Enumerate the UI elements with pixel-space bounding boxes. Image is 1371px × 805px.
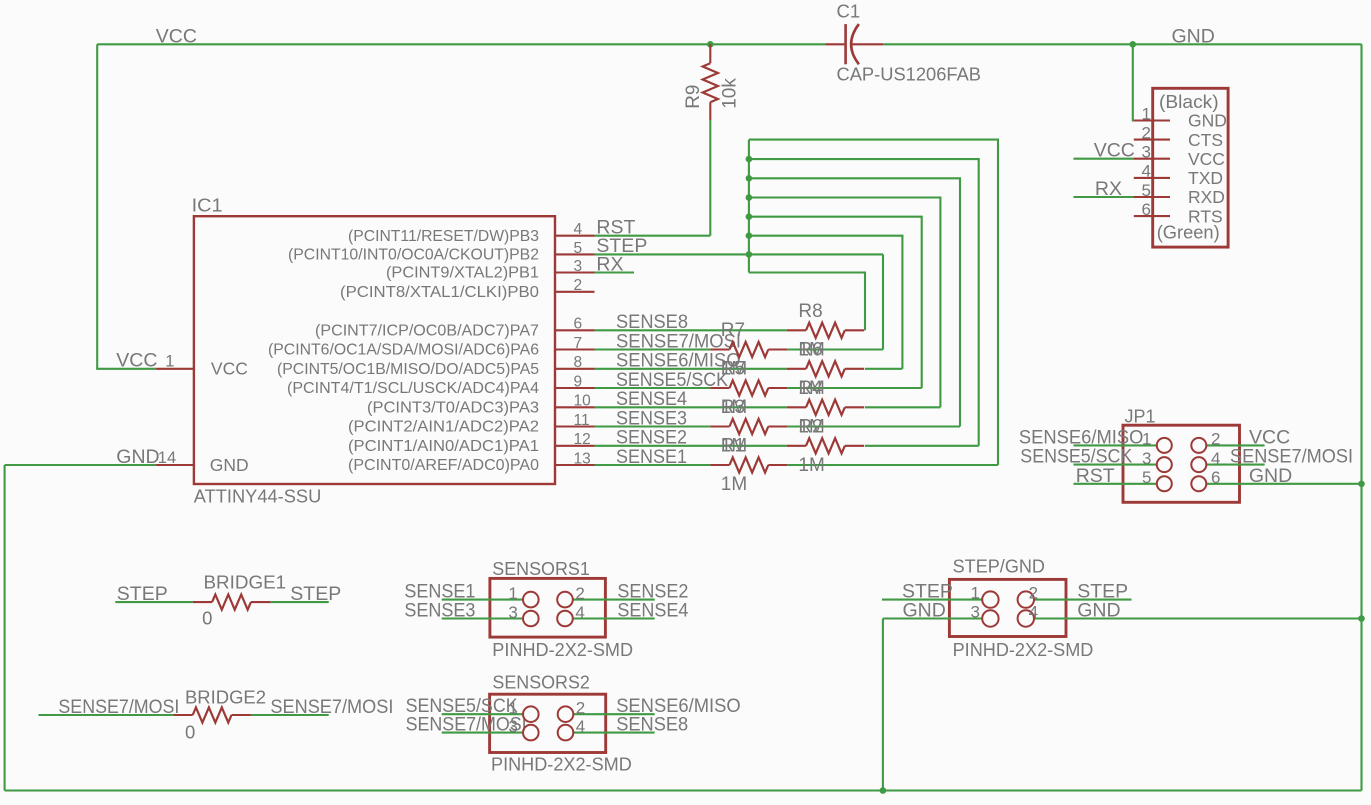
wire SENSE row SENSE5/SCK (resistor to STEP) [788, 387, 922, 389]
svg-text:5: 5 [1142, 468, 1151, 487]
FTDI pin 2 stub [1134, 139, 1170, 141]
wire STEP/GND row 2 right to rail [1034, 617, 1362, 619]
IC1 pin 13 PA0 stub [555, 464, 595, 466]
FTDI pin 4 stub [1134, 177, 1170, 179]
svg-text:12: 12 [574, 431, 591, 448]
wire STEP down to R7 [882, 254, 884, 349]
svg-text:2: 2 [1211, 430, 1220, 449]
wire GND right rail [1360, 44, 1362, 790]
svg-text:CTS: CTS [1188, 130, 1223, 150]
resistor R7 [710, 342, 788, 357]
svg-text:2: 2 [1142, 123, 1151, 142]
STEP/GND pin 2 circle [1018, 591, 1034, 607]
resistor BRIDGE1 [193, 595, 271, 610]
STEP/GND pin 1 circle [982, 591, 998, 607]
wire STEP from IC pin 5 [595, 253, 884, 255]
IC IC1 ATTINY44-SSU body [194, 216, 555, 484]
svg-text:RXD: RXD [1188, 187, 1225, 207]
wire GND drop to FTDI pin 1 [1133, 44, 1134, 120]
svg-text:R8: R8 [798, 301, 822, 322]
junction GND at JP1 row 3 [1358, 481, 1365, 488]
svg-text:2: 2 [575, 584, 584, 603]
svg-text:2: 2 [576, 699, 585, 718]
svg-text:(PCINT9/XTAL2)PB1: (PCINT9/XTAL2)PB1 [386, 265, 539, 282]
wire STEP bus bottom to R8 [749, 273, 865, 331]
wire VCC to FTDI pin 3 [1074, 158, 1135, 160]
svg-text:11: 11 [574, 412, 590, 429]
JP1 pin 5 circle [1157, 476, 1172, 491]
svg-text:14: 14 [158, 449, 176, 467]
junction GND bottom rail [880, 787, 887, 794]
svg-text:4: 4 [576, 717, 585, 736]
svg-text:9: 9 [574, 373, 583, 390]
SENSORS2 pin 2 circle [558, 706, 574, 722]
wire SENSE row SENSE4 (pin side) [595, 406, 787, 408]
svg-text:(PCINT7/ICP/OC0B/ADC7)PA7: (PCINT7/ICP/OC0B/ADC7)PA7 [315, 323, 539, 340]
svg-text:1M: 1M [721, 474, 747, 495]
svg-text:1: 1 [1142, 430, 1151, 449]
IC1 pin 5 PB2 stub [555, 253, 595, 255]
svg-text:(PCINT8/XTAL1/CLKI)PB0: (PCINT8/XTAL1/CLKI)PB0 [340, 284, 539, 301]
wire STEP/GND row 1 right [1034, 599, 1132, 601]
IC1 pin 10 PA3 stub [555, 406, 595, 408]
resistor R3 [710, 419, 788, 434]
svg-text:R7: R7 [721, 320, 745, 341]
svg-text:4: 4 [1029, 602, 1038, 621]
STEP/GND pin 3 circle [982, 610, 998, 626]
SENSORS1 pin 1 circle [523, 592, 539, 608]
svg-text:3: 3 [1142, 449, 1151, 468]
wire SENSE row SENSE5/SCK (pin side) [595, 387, 711, 389]
wire RX from IC pin 3 [595, 271, 635, 273]
IC1 pin 6 PA7 stub [555, 329, 595, 331]
svg-text:R1: R1 [721, 436, 745, 457]
svg-text:VCC: VCC [1188, 149, 1225, 169]
svg-text:CAP-US1206FAB: CAP-US1206FAB [837, 63, 982, 84]
svg-text:4: 4 [1211, 449, 1220, 468]
IC1 pin 7 PA6 stub [555, 348, 595, 350]
FTDI pin 5 stub [1134, 196, 1170, 198]
svg-text:R2: R2 [798, 417, 822, 438]
wire JP1 row 1 left [1074, 444, 1158, 446]
wire SENSE row SENSE4 (resistor to STEP) [865, 406, 940, 408]
junction GND right rail at STEP/GND [1358, 615, 1365, 622]
svg-text:(PCINT1/AIN0/ADC1)PA1: (PCINT1/AIN0/ADC1)PA1 [348, 438, 539, 455]
wire STEP/GND row 2 left [883, 617, 982, 619]
FTDI pin 1 stub [1134, 119, 1170, 121]
JP1 pin 6 circle [1191, 476, 1206, 491]
SENSORS1 pin 4 circle [557, 611, 573, 627]
svg-text:8: 8 [574, 354, 583, 371]
svg-text:0: 0 [202, 608, 212, 629]
svg-text:6: 6 [1142, 200, 1151, 219]
svg-text:3: 3 [508, 603, 517, 622]
wire JP1 GND to right rail [1206, 483, 1362, 485]
svg-text:IC1: IC1 [192, 194, 223, 215]
svg-text:PINHD-2X2-SMD: PINHD-2X2-SMD [491, 753, 632, 774]
SENSORS2 pin 1 circle [523, 706, 539, 722]
svg-text:3: 3 [971, 602, 980, 621]
wire SENSE row SENSE2 (resistor to STEP) [865, 445, 979, 447]
svg-text:10: 10 [574, 393, 592, 410]
svg-text:(PCINT2/AIN1/ADC2)PA2: (PCINT2/AIN1/ADC2)PA2 [348, 419, 539, 436]
wire SENSE row SENSE2 (pin side) [595, 445, 787, 447]
wire STEP bus vertical [748, 140, 750, 273]
junction STEP bus [746, 232, 753, 239]
capacitor C1 [826, 24, 884, 64]
svg-text:0: 0 [185, 722, 195, 743]
svg-text:R5: R5 [721, 359, 745, 380]
svg-text:PINHD-2X2-SMD: PINHD-2X2-SMD [492, 639, 633, 660]
JP1 pin 3 circle [1157, 457, 1172, 472]
wire STEP branch to R3 [749, 178, 960, 426]
svg-text:VCC: VCC [211, 359, 248, 379]
svg-text:STEP/GND: STEP/GND [953, 556, 1045, 577]
wire RST from IC pin 4 [595, 235, 711, 237]
svg-text:RTS: RTS [1188, 206, 1223, 226]
SENSORS1 pin 3 circle [523, 611, 539, 627]
JP1 pin 2 circle [1191, 438, 1206, 453]
svg-text:5: 5 [574, 240, 583, 257]
wire BRIDGE1 left [115, 601, 193, 603]
wire STEP branch to R4 [749, 198, 941, 408]
connector SENSORS1 body [490, 578, 606, 637]
svg-text:1: 1 [508, 699, 517, 718]
svg-text:C1: C1 [837, 1, 861, 22]
resistor BRIDGE2 [173, 707, 251, 722]
svg-text:R4: R4 [798, 378, 823, 399]
wire SENSE row SENSE1 (resistor to STEP) [788, 464, 998, 466]
resistor R1 [710, 457, 788, 472]
wire SENSORS1 row 2 left [442, 617, 524, 619]
svg-text:(PCINT3/T0/ADC3)PA3: (PCINT3/T0/ADC3)PA3 [367, 400, 539, 417]
IC1 pin 1 VCC stub [156, 368, 194, 370]
wire JP1 row 1 right [1206, 444, 1265, 446]
wire BRIDGE2 left [39, 714, 174, 716]
wire SENSE row SENSE3 (pin side) [595, 425, 711, 427]
connector STEP/GND body [949, 579, 1066, 636]
svg-text:10k: 10k [720, 78, 741, 109]
IC1 pin 11 PA2 stub [555, 425, 595, 427]
svg-text:BRIDGE2: BRIDGE2 [185, 686, 266, 707]
wire STEP/GND row 1 left [882, 599, 982, 601]
FTDI pin 6 stub [1134, 215, 1170, 217]
wire JP1 row 2 left [1074, 464, 1158, 466]
wire SENSE row SENSE6/MISO (resistor to STEP) [865, 368, 902, 370]
wire SENSORS2 row 2 left [442, 732, 524, 734]
svg-text:6: 6 [574, 316, 583, 333]
svg-text:4: 4 [1142, 162, 1151, 181]
wire RX to FTDI pin 5 [1074, 196, 1135, 198]
IC1 pin 12 PA1 stub [555, 445, 595, 447]
wire SENSORS2 row 1 right [573, 713, 655, 715]
resistor R6 [787, 361, 865, 376]
wire GND drop to bottom rail [882, 619, 884, 791]
resistor R4 [787, 400, 865, 415]
svg-text:R3: R3 [721, 397, 745, 418]
junction STEP bus [746, 213, 753, 220]
wire GND bottom rail [5, 789, 1362, 791]
svg-text:5: 5 [1142, 181, 1151, 200]
svg-text:1: 1 [1142, 104, 1151, 123]
wire SENSE row SENSE7/MOSI (pin side) [595, 348, 711, 350]
JP1 pin 1 circle [1157, 438, 1172, 453]
svg-text:TXD: TXD [1188, 168, 1223, 188]
svg-text:3: 3 [508, 717, 517, 736]
wire SENSE row SENSE8 (pin side) [595, 329, 787, 331]
svg-text:R6: R6 [798, 340, 822, 361]
svg-text:1M: 1M [798, 455, 824, 476]
svg-text:(PCINT11/RESET/DW)PB3: (PCINT11/RESET/DW)PB3 [348, 228, 539, 245]
wire SENSE row SENSE1 (pin side) [595, 464, 711, 466]
wire STEP branch to R5 [749, 217, 922, 388]
IC1 pin 2 PB0 stub [555, 291, 595, 293]
node VCC junction at R9 [707, 41, 714, 48]
IC1 pin 14 GND stub [156, 464, 194, 466]
wire BRIDGE1 right [270, 601, 328, 603]
resistor R2 [787, 438, 865, 453]
connector JP1 body [1123, 425, 1240, 502]
FTDI pin 3 stub [1134, 158, 1170, 160]
SENSORS2 pin 4 circle [558, 725, 574, 741]
STEP/GND pin 4 circle [1018, 610, 1034, 626]
svg-text:13: 13 [574, 450, 591, 467]
wire SENSORS2 row 2 right [573, 732, 655, 734]
svg-text:4: 4 [574, 221, 583, 238]
junction STEP bus [746, 175, 753, 182]
wire SENSE row SENSE6/MISO (pin side) [595, 368, 787, 370]
svg-text:(PCINT6/OC1A/SDA/MOSI/ADC6)PA6: (PCINT6/OC1A/SDA/MOSI/ADC6)PA6 [268, 342, 539, 359]
svg-text:PINHD-2X2-SMD: PINHD-2X2-SMD [953, 639, 1094, 660]
svg-text:3: 3 [574, 258, 583, 275]
svg-text:GND: GND [1188, 111, 1227, 131]
wire GND to IC pin 14 [5, 464, 156, 466]
wire STEP branch to R2 [749, 159, 979, 446]
svg-text:4: 4 [575, 603, 584, 622]
wire VCC left drop to IC pin 1 [97, 44, 156, 369]
IC1 pin 3 PB1 stub [555, 271, 595, 273]
wire JP1 row 3 left [1074, 483, 1158, 485]
wire JP1 row 2 right [1206, 464, 1265, 466]
svg-text:6: 6 [1211, 468, 1220, 487]
svg-text:1: 1 [165, 353, 174, 371]
svg-text:R9: R9 [683, 85, 704, 109]
resistor R8 [787, 323, 865, 338]
svg-text:(PCINT10/INT0/OC0A/CKOUT)PB2: (PCINT10/INT0/OC0A/CKOUT)PB2 [288, 247, 539, 264]
svg-text:SENSORS1: SENSORS1 [492, 558, 590, 579]
svg-text:GND: GND [210, 455, 249, 475]
svg-text:(PCINT5/OC1B/MISO/DO/ADC5)PA5: (PCINT5/OC1B/MISO/DO/ADC5)PA5 [277, 361, 539, 378]
svg-text:7: 7 [574, 335, 583, 352]
IC1 pin 4 PB3 stub [555, 235, 595, 237]
node GND junction at FTDI drop [1130, 41, 1137, 48]
wire GND left rail [4, 465, 6, 791]
SENSORS2 pin 3 circle [523, 725, 539, 741]
svg-text:JP1: JP1 [1125, 405, 1156, 426]
connector FTDI body [1153, 88, 1228, 247]
wire SENSORS2 row 1 left [442, 713, 524, 715]
connector SENSORS2 body [490, 694, 606, 752]
IC1 pin 8 PA5 stub [555, 368, 595, 370]
wire SENSE row SENSE7/MOSI (resistor to STEP) [788, 348, 883, 350]
wire BRIDGE2 right [251, 714, 329, 716]
svg-text:(Black): (Black) [1159, 91, 1219, 112]
junction STEP bus [746, 251, 753, 258]
wire SENSORS1 row 2 right [572, 617, 654, 619]
JP1 pin 4 circle [1191, 457, 1206, 472]
svg-text:2: 2 [1029, 583, 1038, 602]
wire RST up to R9 [709, 120, 711, 236]
svg-text:BRIDGE1: BRIDGE1 [204, 571, 287, 592]
resistor R9 [703, 44, 718, 120]
resistor R5 [710, 380, 788, 395]
svg-text:(PCINT0/AREF/ADC0)PA0: (PCINT0/AREF/ADC0)PA0 [348, 457, 539, 474]
wire STEP branch top to R1 [749, 140, 998, 465]
IC1 pin 9 PA4 stub [555, 387, 595, 389]
svg-text:1: 1 [971, 583, 980, 602]
wire SENSORS1 row 1 left [442, 599, 524, 601]
junction STEP bus [746, 194, 753, 201]
svg-text:(PCINT4/T1/SCL/USCK/ADC4)PA4: (PCINT4/T1/SCL/USCK/ADC4)PA4 [287, 380, 539, 397]
svg-text:3: 3 [1142, 143, 1151, 162]
wire STEP branch to R6 [749, 236, 903, 369]
svg-text:SENSORS2: SENSORS2 [492, 671, 590, 692]
wire SENSORS1 row 1 right [572, 599, 654, 601]
svg-text:ATTINY44-SSU: ATTINY44-SSU [194, 486, 321, 507]
wire GND top rail (right of C1) [883, 43, 1361, 45]
svg-text:1: 1 [508, 584, 517, 603]
junction STEP bus [746, 156, 753, 163]
svg-text:2: 2 [574, 277, 583, 294]
wire VCC top rail [97, 43, 825, 45]
SENSORS1 pin 2 circle [557, 592, 573, 608]
wire SENSE row SENSE3 (resistor to STEP) [788, 425, 960, 427]
